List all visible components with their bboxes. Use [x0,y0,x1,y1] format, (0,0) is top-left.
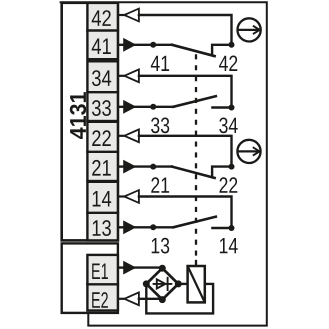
wire E2 stub [118,298,124,300]
output arrow terminal 22 [124,129,139,142]
terminal group 42/41 [87,3,118,59]
terminal group 22/21 [87,122,118,181]
junction node 22 [229,164,235,170]
terminal 21 [92,160,111,176]
terminal 42 [92,10,111,26]
test actuator symbol middle [237,140,260,163]
pin label 41 [151,56,169,71]
bridge node bottom [159,296,166,303]
wire 41 [134,44,172,46]
housing outline [61,2,267,325]
bridge node top [159,265,166,272]
wire E2 to rectifier [139,298,162,300]
input arrow terminal 41 [123,38,136,52]
output arrow terminal 34 [124,69,139,82]
junction node 21 [150,164,156,170]
wire 13 [134,226,174,228]
junction node 13 [150,224,156,230]
wire bridge to coil [178,283,187,285]
wire 42 output stub [118,14,124,16]
pin label 21 [151,177,169,193]
wire 13 stub [118,226,124,228]
bridge node left [143,280,150,287]
terminal 22 [92,130,111,146]
terminal group E1/E2 [87,255,118,311]
linkage stub to coil [195,261,197,266]
junction node 33 [150,104,156,110]
wire 22 output stub [118,135,124,137]
wire 21 stub [118,165,124,167]
NC contact 33-34 blade [173,96,216,107]
NC contact 13-14 blade [173,217,216,228]
terminal 14 [93,191,112,207]
NC contact 21-22 blade [172,167,215,178]
NC contact 41-42 blade [172,45,215,56]
terminal group 34/33 [87,61,118,121]
input arrow terminal 13 [123,220,136,234]
diode lead [154,283,172,285]
wire 34 output stub [118,75,124,77]
diode D1 [157,279,166,288]
pin label 22 [220,177,238,193]
junction node 41 [150,42,156,48]
terminal group 14/13 [87,182,118,241]
mechanical linkage (dashed) [195,54,197,261]
terminal 41 [92,39,111,55]
junction node 42 [229,42,235,48]
wire 14 output stub [118,195,124,197]
wire 42 [139,15,232,45]
terminal E1 [92,264,108,280]
wire E1 to rectifier [134,266,162,268]
pin label 13 [152,238,170,254]
wire 22 [139,136,232,167]
wire 33 [134,106,174,108]
relay coil K1 [188,266,205,302]
terminal E2 [92,292,108,308]
junction node 34 [229,105,235,111]
NC contact 13-14 fixed contact [212,227,231,229]
pin label 42 [219,56,237,72]
test actuator symbol top [238,18,261,41]
diode cathode bar [167,278,169,290]
wire E1 stub [118,266,124,268]
terminal 34 [92,70,111,86]
wire bridge return loop [146,284,213,314]
output arrow terminal 14 [124,190,139,203]
input arrow terminal E1 [123,261,136,275]
wire 14 [139,197,232,229]
pin label 14 [220,238,238,253]
wire 21 [134,165,172,167]
output arrow terminal E2 [124,292,139,305]
label 4131 [70,92,86,139]
junction node 14 [229,225,235,231]
relay coil diagonal [188,268,204,302]
E-block frame [62,243,118,313]
terminal 33 [92,100,111,116]
input arrow terminal 21 [123,160,136,174]
wire 33 stub [118,106,124,108]
bridge rectifier diamond [146,268,178,299]
NC contact 21-22 fixed contact [212,167,231,177]
pin label 33 [151,118,169,134]
wire 34 [139,76,232,108]
terminal 13 [93,220,111,236]
pin label 34 [219,118,237,134]
input arrow terminal 33 [123,100,136,114]
output arrow terminal 42 [124,9,139,22]
NC contact 41-42 fixed contact [212,45,231,55]
bridge node right [175,280,182,287]
NC contact 33-34 fixed contact [212,106,231,108]
wire 41 stub [118,44,124,46]
terminal block frame 4131 [62,3,118,241]
